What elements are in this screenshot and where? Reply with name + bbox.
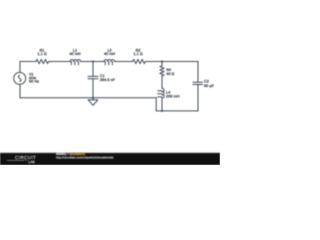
capacitor C2 xyxy=(193,82,203,84)
CircuitLab logo xyxy=(7,155,36,164)
wire R2 to node B xyxy=(145,61,162,63)
inductor L1 xyxy=(70,59,80,64)
svg-text:1.1 Ω: 1.1 Ω xyxy=(133,52,142,56)
inductor L4 xyxy=(158,88,165,98)
wire R4 to L4 xyxy=(161,76,163,89)
voltage source V1 xyxy=(14,72,26,84)
wire C2 to bottom xyxy=(197,85,199,111)
svg-text:40 mH: 40 mH xyxy=(104,52,116,56)
wire bottom-left xyxy=(20,97,156,99)
wire node B to R4 xyxy=(161,62,163,66)
wire node B to top-right corner xyxy=(162,61,198,63)
wire L2 to R2 xyxy=(115,61,133,63)
svg-text:1.1 Ω: 1.1 Ω xyxy=(37,52,46,56)
wire node A to L2 xyxy=(93,61,104,63)
wire bottom-right xyxy=(156,110,198,112)
wire left vertical top xyxy=(19,62,21,73)
wire top-right vertical xyxy=(197,62,199,83)
svg-text:40 Ω: 40 Ω xyxy=(166,72,174,76)
svg-text:LAB: LAB xyxy=(28,160,35,164)
svg-text:294.5 nF: 294.5 nF xyxy=(100,78,116,82)
ground xyxy=(88,98,98,106)
capacitor C1 xyxy=(88,76,98,78)
wire left vertical bottom xyxy=(19,84,21,97)
footer bar xyxy=(0,153,220,165)
wire L1 to node A xyxy=(81,61,93,63)
wire C1 to bottom xyxy=(92,79,94,98)
wire R1 to L1 xyxy=(49,61,71,63)
resistor R2 xyxy=(133,59,146,63)
resistor R1 xyxy=(36,59,49,63)
svg-text:50 Hz: 50 Hz xyxy=(29,80,39,84)
inductor L2 xyxy=(104,59,114,64)
wire L4 to bottom node xyxy=(161,98,163,111)
node A junction dot xyxy=(92,60,94,62)
ground junction dot xyxy=(92,97,94,99)
svg-text:http://circuitlab.com/c/4pw8z2: http://circuitlab.com/c/4pw8z2/simulatio… xyxy=(56,155,114,159)
wire node A to C1 xyxy=(92,62,94,77)
bottom node junction dot xyxy=(161,110,163,112)
node B junction dot xyxy=(161,60,163,62)
svg-text:40 mH: 40 mH xyxy=(69,52,81,56)
wire jog down xyxy=(155,98,157,111)
wire top-left segment xyxy=(20,61,36,63)
resistor R4 xyxy=(160,66,164,76)
svg-text:200 mH: 200 mH xyxy=(166,94,180,98)
svg-text:60 µF: 60 µF xyxy=(204,84,215,88)
